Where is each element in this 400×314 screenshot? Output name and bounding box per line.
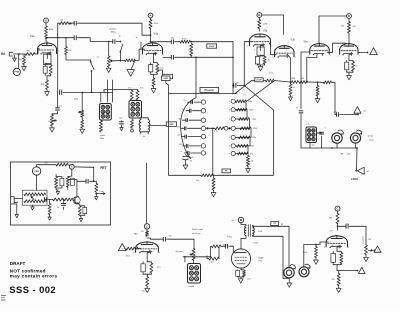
wire [193, 260, 195, 263]
capacitor bank C16 [188, 100, 206, 104]
wire (sec top) [253, 225, 289, 267]
resistor R19 (divider) [316, 82, 319, 96]
resistor R10 [152, 78, 155, 87]
tube V6 (power) [231, 249, 263, 268]
svg-text:100k: 100k [249, 110, 253, 112]
speaker jack J2 [350, 130, 361, 148]
wire [107, 80, 109, 102]
svg-text:8: 8 [43, 52, 44, 54]
resistor R51 [207, 247, 219, 260]
shield box (V3a cathode) [254, 47, 264, 55]
svg-text:7: 7 [57, 54, 58, 56]
wire [337, 224, 339, 231]
svg-text:1 ch: 1 ch [306, 124, 310, 126]
svg-text:10k: 10k [60, 20, 63, 22]
resistor R9 (cathode) [151, 63, 164, 75]
svg-text:10k: 10k [353, 26, 356, 28]
wire [46, 64, 48, 65]
switch SW2 [90, 60, 94, 93]
wire [166, 81, 169, 94]
svg-text:470k: 470k [126, 256, 130, 258]
resistor R2 (grid stopper) [25, 53, 35, 56]
wire [212, 128, 214, 175]
wire [140, 42, 142, 49]
resistor R14 (cathode) [258, 56, 267, 65]
wire (grid) [304, 242, 328, 267]
ground [314, 258, 319, 265]
svg-text:1k: 1k [293, 87, 295, 89]
label DRAFT [10, 261, 26, 266]
svg-text:2: 2 [133, 253, 134, 255]
ground [211, 190, 216, 197]
capacitor C35 [338, 224, 349, 228]
wire [258, 29, 260, 32]
ground [95, 194, 98, 200]
svg-text:47n: 47n [236, 83, 239, 85]
svg-text:LOOP: LOOP [209, 46, 215, 48]
resistor R3 (input load) [19, 54, 26, 65]
svg-text:1.5M: 1.5M [252, 119, 256, 121]
svg-text:+9v: +9v [44, 162, 47, 164]
label [368, 135, 375, 142]
capacitor C34 [236, 270, 240, 277]
ground [336, 286, 341, 293]
wire [247, 81, 291, 102]
potentiometer VR4 (gain) [22, 190, 47, 205]
svg-text:250k: 250k [74, 99, 78, 101]
svg-text:220n: 220n [177, 135, 181, 137]
resistor R20 [323, 81, 331, 84]
svg-text:attenu: attenu [368, 135, 374, 138]
wire [175, 56, 234, 97]
svg-text:as shown: as shown [192, 233, 200, 235]
wire [319, 16, 347, 44]
output arrow [95, 190, 105, 194]
resistor R42 (gate) [53, 198, 63, 201]
resistor R43 (gate2) [63, 198, 73, 201]
svg-text:220k: 220k [291, 78, 295, 80]
svg-text:7: 7 [295, 57, 296, 59]
wire [190, 41, 233, 43]
wire [241, 236, 246, 239]
tube V5 [136, 231, 159, 254]
resistor R11 (mixer) [180, 40, 191, 43]
ground [15, 204, 19, 218]
svg-text:470k: 470k [253, 128, 257, 130]
ground [80, 128, 85, 134]
svg-text:o/p level: o/p level [176, 251, 184, 253]
svg-text:15k: 15k [250, 161, 253, 163]
capacitor bank C18 [182, 118, 205, 122]
svg-text:8: 8 [256, 44, 257, 46]
wire [146, 229, 148, 231]
svg-text:3: 3 [49, 52, 50, 54]
LDR1 flag [355, 167, 369, 174]
node PRE (preamp-in) [13, 54, 20, 76]
svg-text:22n: 22n [171, 38, 174, 40]
wire [78, 38, 113, 43]
wire [300, 114, 302, 148]
wire (V3a to V3b) [269, 43, 276, 55]
svg-text:Presets: Presets [205, 88, 215, 92]
svg-text:3: 3 [350, 54, 351, 56]
socket X3 [306, 127, 317, 143]
svg-text:rev: rev [364, 111, 367, 113]
wire [337, 211, 339, 213]
enclosure (presets box) [169, 94, 274, 176]
net flag (to FET return) [127, 61, 135, 76]
net flag out [370, 48, 378, 55]
wire [146, 274, 148, 276]
power node B [257, 13, 262, 18]
ground [120, 128, 123, 131]
resistor R44 (leak) [49, 200, 51, 204]
svg-text:22n: 22n [184, 100, 187, 102]
resistor R27 [213, 127, 224, 130]
tube V3a [250, 30, 271, 47]
wire [348, 33, 350, 44]
resistor R49 [146, 277, 149, 287]
svg-text:7: 7 [229, 153, 230, 155]
svg-text:22n: 22n [59, 90, 62, 92]
wire [332, 82, 337, 114]
resistor R17 [290, 81, 299, 84]
wire [261, 44, 264, 47]
label LDR1 [351, 177, 359, 181]
svg-text:NOT confirmed: NOT confirmed [10, 268, 46, 273]
wire [78, 23, 152, 36]
wire [100, 92, 113, 94]
svg-text:8: 8 [280, 55, 281, 57]
socket X2 [129, 101, 142, 119]
svg-text:3: 3 [149, 251, 150, 253]
svg-text:IN: IN [1, 52, 5, 56]
svg-text:56k: 56k [68, 50, 71, 52]
wire [260, 54, 262, 57]
svg-text:htr: htr [143, 135, 146, 138]
wire [241, 223, 246, 226]
switch SW1 (bright) [120, 41, 123, 61]
resistor R57 (slope) [65, 38, 71, 55]
svg-text:2: 2 [377, 250, 378, 252]
capacitor C4 [60, 91, 62, 95]
resistor R5 (cathode) [47, 64, 52, 76]
svg-text:3: 3 [338, 245, 339, 247]
capacitor C15 [232, 84, 236, 88]
wire [68, 164, 70, 167]
svg-text:47n: 47n [169, 236, 172, 238]
wiper arrow (left wafer) [206, 127, 213, 129]
wire [112, 80, 114, 102]
wire [113, 60, 125, 62]
resistor R6 [41, 80, 49, 90]
svg-text:47k: 47k [250, 153, 253, 155]
resistor R40 [66, 176, 72, 190]
svg-text:1k: 1k [268, 60, 270, 62]
wire [258, 17, 260, 19]
svg-text:1: 1 [325, 128, 326, 130]
wire (V4 output) [358, 52, 368, 54]
svg-text:68k: 68k [27, 50, 30, 52]
label box GND [150, 122, 177, 127]
resistor R26 [131, 120, 134, 128]
wire [183, 246, 211, 262]
resistor R22 (cathode) [347, 61, 355, 73]
resistor ladder R34 [229, 151, 253, 155]
contact [224, 126, 228, 130]
wire (to LDR) [356, 148, 359, 170]
svg-text:7: 7 [159, 253, 160, 255]
label box GND2 [162, 76, 171, 81]
svg-text:3: 3 [262, 44, 263, 46]
heater coil L1 [139, 118, 141, 132]
svg-text:47n: 47n [182, 109, 185, 111]
wire [100, 93, 102, 103]
svg-text:8: 8 [148, 52, 149, 54]
net flag rev [354, 107, 366, 114]
svg-text:1M: 1M [368, 239, 371, 241]
power node C2 [232, 217, 244, 222]
ground [106, 67, 111, 73]
ground [50, 126, 55, 132]
capacitor C13 (bypass) [345, 61, 349, 73]
wire (coupling) [327, 43, 346, 52]
capacitor bank C21 [183, 144, 206, 148]
svg-text:2: 2 [140, 54, 141, 56]
wire [104, 90, 138, 93]
shield box (V1 cathode) [44, 54, 52, 64]
rotary switch wafer (arc) [181, 98, 196, 159]
page mark [1, 296, 6, 301]
ground [347, 76, 352, 80]
svg-text:7: 7 [163, 54, 164, 56]
speaker jack J5 [299, 264, 310, 277]
svg-text:7: 7 [348, 247, 349, 249]
wire [262, 15, 284, 35]
svg-text:47k: 47k [301, 78, 304, 80]
svg-text:Volume: Volume [110, 28, 118, 30]
wire [287, 54, 291, 84]
svg-text:V4a: V4a [304, 42, 309, 44]
svg-text:1: 1 [122, 248, 123, 250]
svg-text:send: send [269, 73, 273, 75]
socket X1 [100, 104, 112, 121]
svg-text:220k: 220k [252, 137, 256, 139]
label box PS [222, 169, 231, 173]
svg-text:1: 1 [373, 52, 374, 54]
svg-text:470k: 470k [182, 39, 186, 41]
resistor R55 (cathode) [333, 251, 343, 264]
svg-text:2: 2 [324, 247, 325, 249]
tube V4b [340, 43, 358, 56]
label [341, 154, 352, 156]
svg-text:100k: 100k [263, 24, 267, 26]
capacitor C6 (bright) [113, 40, 121, 44]
power node A2 [148, 13, 153, 18]
resistor ladder R33 [229, 144, 254, 154]
wire [71, 169, 73, 176]
resistor R39 [55, 175, 62, 191]
input jack IN [1, 52, 13, 56]
label volume [110, 28, 118, 33]
power node C [144, 224, 149, 229]
node PRE2 [32, 167, 40, 175]
resistor R8 (grid stopper) [125, 59, 136, 62]
svg-text:FET: FET [100, 166, 106, 170]
ground [151, 87, 156, 93]
ground [258, 67, 263, 71]
wire [141, 132, 148, 134]
svg-text:100n: 100n [177, 126, 181, 128]
wire [35, 49, 39, 54]
resistor R23 [100, 121, 103, 133]
resistor R58 [81, 117, 84, 128]
wire [150, 18, 152, 20]
wire [337, 265, 358, 272]
capacitor C28 [44, 198, 53, 202]
tube V7 [326, 230, 347, 248]
svg-text:2: 2 [229, 110, 230, 112]
label may-contain-errors [10, 274, 58, 279]
svg-text:6: 6 [229, 146, 230, 148]
wire [108, 42, 110, 57]
svg-text:1u: 1u [180, 151, 182, 153]
ground [48, 215, 51, 221]
svg-text:4: 4 [229, 128, 230, 130]
svg-text:8: 8 [344, 54, 345, 56]
wire [337, 245, 340, 251]
wire (grid) [233, 246, 235, 253]
ground [287, 278, 292, 287]
wire [45, 37, 47, 42]
wire (V4a cathode tap) [306, 53, 317, 82]
svg-text:2: 2 [337, 56, 338, 58]
svg-text:GND: GND [164, 78, 169, 80]
capacitor C10 (bypass) [255, 56, 259, 65]
wire [52, 112, 58, 115]
resistor ladder R29 [229, 108, 253, 119]
tube V3b [275, 38, 296, 58]
ground [246, 166, 251, 173]
resistor R25 [136, 90, 139, 101]
wire (sec bottom) [253, 236, 290, 279]
svg-text:V3a: V3a [263, 30, 268, 33]
svg-text:820: 820 [41, 84, 44, 86]
svg-text:presence: presence [361, 236, 364, 244]
wire (plate) [240, 238, 242, 249]
node b [69, 164, 74, 169]
wire [147, 238, 163, 239]
capacitor C2 (filter) [68, 21, 76, 25]
resistor R50 [212, 245, 221, 248]
capacitor C25 [60, 177, 64, 188]
svg-text:2: 2 [35, 54, 36, 56]
wire [175, 41, 180, 43]
capacitor C26 [71, 178, 75, 185]
value labels [27, 26, 372, 293]
capacitor bank C22 [184, 151, 205, 155]
resistor R18 [291, 78, 308, 84]
svg-text:7: 7 [359, 56, 360, 58]
wire [167, 239, 194, 248]
power node A (V1 supply) [44, 18, 49, 23]
svg-text:47k: 47k [329, 218, 332, 220]
svg-text:GND: GND [169, 124, 174, 126]
svg-text:may contain errors: may contain errors [10, 274, 58, 279]
ground [289, 95, 293, 101]
label not-confirmed [10, 268, 46, 273]
wire (to presets) [232, 42, 234, 94]
svg-text:7: 7 [330, 56, 331, 58]
ground [22, 65, 27, 71]
resistor R53 (V7 plate) [329, 214, 339, 224]
svg-text:1M: 1M [19, 59, 22, 61]
wire [47, 52, 50, 54]
svg-text:PRE: PRE [34, 171, 39, 173]
wire [349, 52, 351, 60]
ground [364, 255, 369, 262]
svg-text:150k: 150k [154, 23, 158, 25]
svg-text:ECA8: ECA8 [259, 256, 264, 259]
ground [56, 190, 60, 195]
label box OT [271, 222, 284, 226]
capacitor C12 (series) [299, 111, 303, 113]
resistor R21 (V4b plate) [341, 22, 351, 34]
resistor R37 [212, 174, 215, 190]
svg-text:7: 7 [271, 46, 272, 48]
svg-text:PRE: PRE [15, 72, 20, 74]
potentiometer VR6 [361, 236, 375, 254]
wire [240, 268, 242, 270]
capacitor C32 [163, 237, 165, 241]
svg-text:1.5k: 1.5k [160, 68, 164, 70]
resistor R46 (V5 plate) [134, 231, 149, 236]
svg-text:V2a: V2a [154, 33, 159, 36]
ground [145, 286, 150, 293]
svg-text:LOOP: LOOP [256, 80, 262, 82]
ground [238, 277, 243, 283]
svg-text:mains: mains [100, 135, 105, 137]
svg-text:ohm: ohm [347, 154, 351, 156]
wire [37, 162, 56, 166]
svg-text:100k: 100k [303, 252, 307, 254]
potentiometer VR1 (tone) [51, 115, 57, 127]
capacitor C33 [221, 244, 228, 248]
label switch-used [192, 228, 203, 235]
wire [45, 64, 47, 81]
wire [348, 18, 350, 21]
ground [45, 90, 50, 96]
resistor ladder R30 [229, 117, 256, 128]
label box Presets [200, 87, 219, 92]
wire (diag) [235, 81, 251, 94]
input jack J3 [11, 197, 17, 204]
svg-text:45k: 45k [341, 26, 344, 28]
svg-text:LDR1: LDR1 [351, 177, 359, 181]
svg-text:240v: 240v [100, 138, 104, 140]
ground [315, 96, 320, 103]
resistor R4 (decoupling) [59, 20, 68, 25]
svg-text:DRAFT: DRAFT [10, 261, 26, 266]
resistor R47 (grid) [126, 247, 141, 250]
svg-text:47n: 47n [346, 223, 349, 225]
wire [163, 55, 192, 58]
wire [66, 55, 91, 61]
capacitor C23 (5uF) [183, 155, 195, 163]
capacitor C9 [171, 55, 173, 59]
svg-text:1k: 1k [355, 66, 357, 68]
potentiometer VR5 (level) [176, 249, 196, 261]
